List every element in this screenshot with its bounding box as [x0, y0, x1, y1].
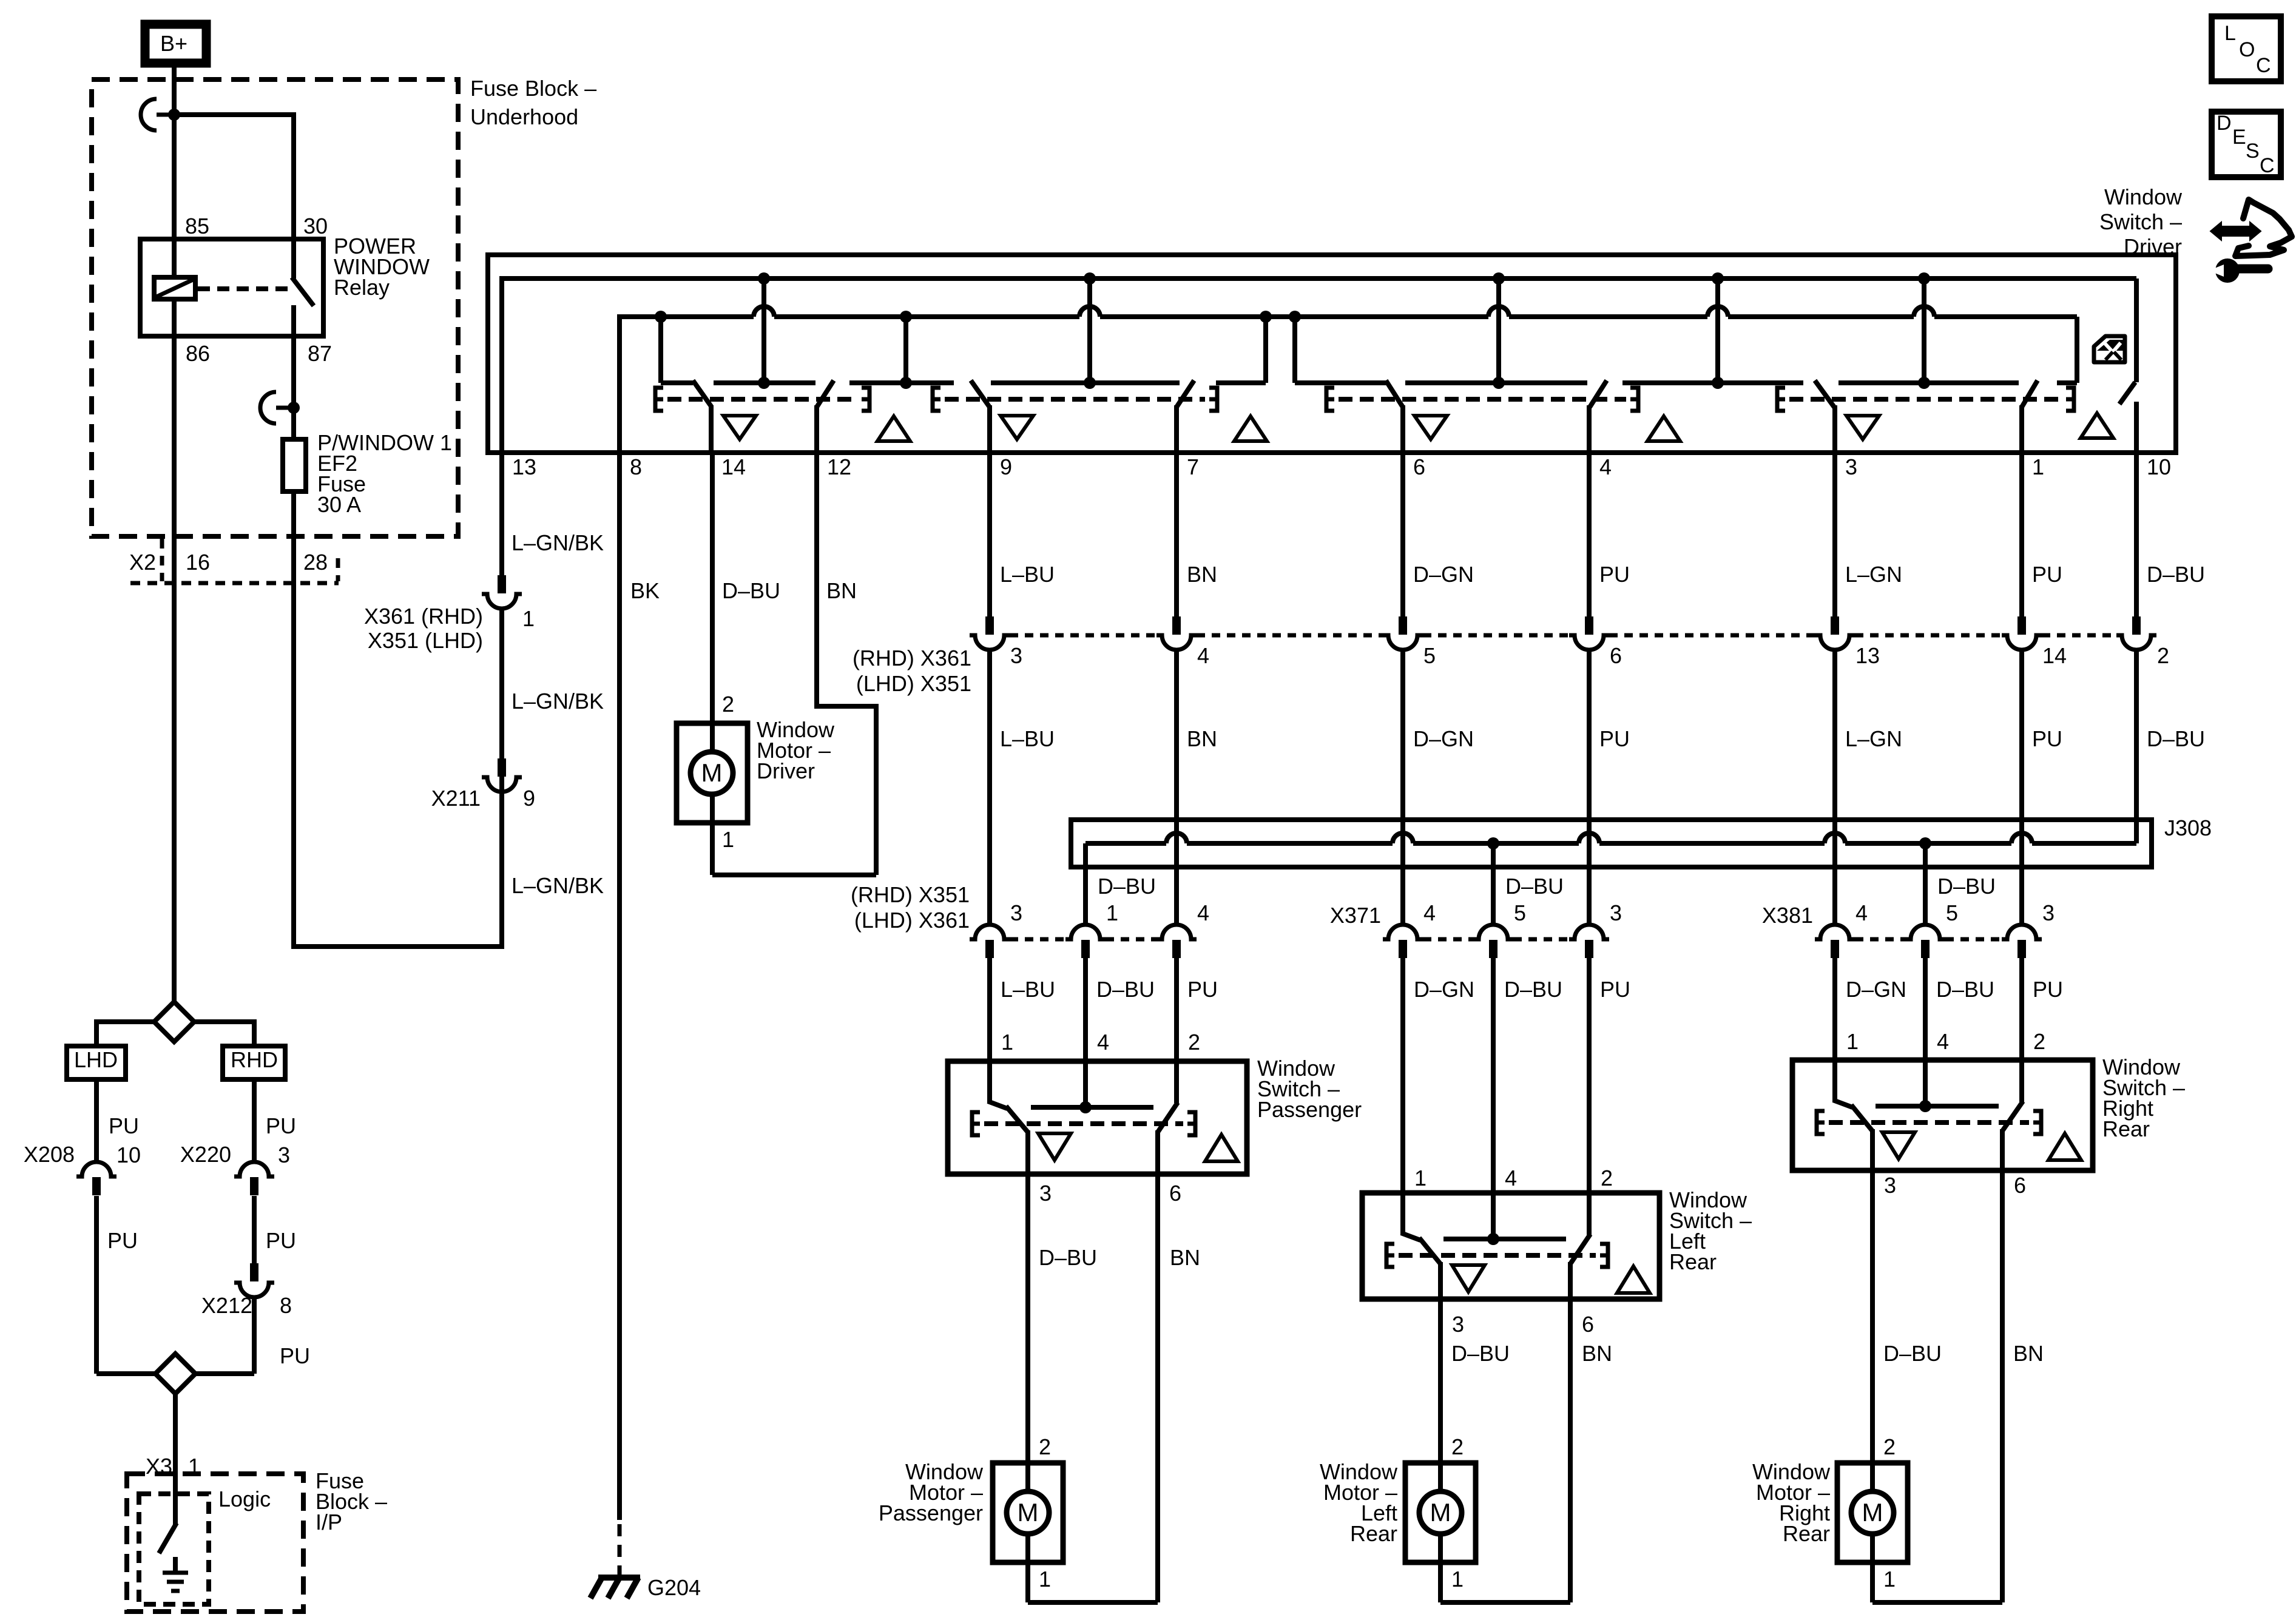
- fuse P/WINDOW 1 EF2 30A: [283, 439, 306, 491]
- svg-text:2: 2: [1883, 1434, 1896, 1459]
- wire pin 3: [1832, 405, 1837, 453]
- svg-text:PU: PU: [109, 1113, 139, 1138]
- wire fuse down through X2-28: [291, 491, 296, 949]
- svg-text:Fuse Block –: Fuse Block –: [470, 76, 596, 101]
- svg-text:2: 2: [1039, 1434, 1051, 1459]
- svg-text:3: 3: [1039, 1181, 1052, 1206]
- wires row1 to J308: [1174, 650, 1179, 822]
- connector X381 terminal x=3024: [1815, 925, 1855, 939]
- svg-text:X211: X211: [431, 786, 481, 811]
- connector X371 terminal x=2619: [1569, 925, 1609, 939]
- svg-text:10: 10: [116, 1143, 141, 1167]
- svg-text:D–BU: D–BU: [1937, 874, 1996, 899]
- svg-text:2: 2: [2033, 1029, 2045, 1054]
- node bar junction x=1259: [758, 377, 770, 389]
- svg-text:Relay: Relay: [334, 275, 390, 300]
- svg-text:1: 1: [1001, 1030, 1013, 1055]
- wire motor pin1 to BN loop: [710, 823, 715, 875]
- svg-text:M: M: [701, 758, 723, 787]
- connector X211 pin 9: [498, 758, 506, 777]
- wire X212 down: [252, 1296, 257, 1374]
- svg-text:5: 5: [1514, 900, 1526, 925]
- wire 8 BK to ground: [617, 453, 622, 1520]
- svg-text:3: 3: [1452, 1312, 1464, 1337]
- svg-text:(RHD) X351: (RHD) X351: [851, 882, 970, 907]
- svg-text:2: 2: [1451, 1434, 1464, 1459]
- motor M driver: [690, 752, 733, 794]
- svg-text:4: 4: [1423, 900, 1436, 925]
- svg-text:BN: BN: [1170, 1245, 1200, 1270]
- DESC box: [2212, 112, 2281, 177]
- wire pin column x=2312 to row-1 connector: [1400, 453, 1405, 616]
- svg-text:D–BU: D–BU: [1096, 977, 1155, 1002]
- switch linkage group 2: [933, 388, 940, 411]
- service icon: double arrow: [2210, 222, 2261, 240]
- battery feed B+: [145, 24, 206, 63]
- switch contact bar 1089-1142: [661, 380, 693, 385]
- bus2 up-feed right of group2: [1260, 311, 1272, 323]
- svg-text:D–BU: D–BU: [1504, 977, 1562, 1002]
- wire D-BU right rear motor: [1870, 1170, 1875, 1463]
- svg-text:L–GN/BK: L–GN/BK: [512, 689, 604, 714]
- svg-text:PU: PU: [2032, 562, 2062, 587]
- node bus2 feed x=1493: [900, 311, 912, 323]
- LOC box: [2212, 16, 2281, 81]
- svg-text:13: 13: [1855, 643, 1880, 668]
- svg-text:5: 5: [1946, 900, 1958, 925]
- relay linkage dashes: [198, 286, 290, 291]
- connector X361/X351 terminal x=2619: [1585, 616, 1593, 635]
- svg-text:(LHD) X351: (LHD) X351: [856, 671, 971, 696]
- junction block J308: [1071, 820, 2152, 867]
- wire BN right rear: [2000, 1170, 2005, 1602]
- svg-text:1: 1: [1883, 1567, 1896, 1592]
- switch contact bar 2004-2086: [1216, 380, 1266, 385]
- svg-text:Window: Window: [2104, 184, 2183, 209]
- connector row 1 dashes: [1010, 633, 1156, 638]
- wire pin 9: [987, 405, 992, 453]
- node bar junction x=3171: [1918, 377, 1930, 389]
- svg-text:4: 4: [1197, 643, 1209, 668]
- connector X361/X351 terminal x=1939: [1172, 616, 1181, 635]
- wire to LHD: [96, 1019, 154, 1024]
- node bus1 feed x=1259: [758, 272, 770, 285]
- svg-text:BN: BN: [826, 578, 857, 603]
- wire B+ to relay 85: [172, 63, 177, 239]
- fusible curl at fuse junction: [260, 392, 276, 424]
- svg-text:X381: X381: [1762, 903, 1813, 928]
- wire pin column x=3332 to row-1 connector: [2019, 453, 2024, 616]
- svg-text:B+: B+: [160, 31, 187, 56]
- fuse block underhood dashed box: [92, 79, 458, 536]
- wire pin 6: [1400, 405, 1405, 453]
- pin10 switch: feed from bus1 corner: [2134, 279, 2139, 382]
- svg-text:Rear: Rear: [2102, 1116, 2150, 1141]
- svg-text:Rear: Rear: [1669, 1249, 1717, 1274]
- wire pin column x=1631 to row-1 connector: [987, 453, 992, 616]
- service icon: wrench: [2215, 258, 2240, 283]
- svg-text:1: 1: [1106, 900, 1118, 925]
- connector X371 terminal x=2461: [1473, 925, 1513, 939]
- svg-text:X371: X371: [1330, 903, 1381, 928]
- wire 13 L-GN/BK: [499, 453, 504, 575]
- svg-text:Driver: Driver: [757, 758, 815, 783]
- node B+ junction: [168, 109, 180, 121]
- svg-text:D–BU: D–BU: [1505, 874, 1564, 899]
- window switch driver box: [488, 255, 2176, 453]
- svg-text:12: 12: [827, 454, 851, 479]
- svg-text:Rear: Rear: [1350, 1521, 1397, 1546]
- connector X361/X351 terminal x=1631: [985, 616, 994, 635]
- svg-text:D–BU: D–BU: [1451, 1341, 1510, 1366]
- window up arrow x=2742: [1647, 416, 1680, 441]
- wire pin column x=2619 to row-1 connector: [1587, 453, 1592, 616]
- switch arm pin 1: [2022, 380, 2038, 407]
- svg-text:Rear: Rear: [1783, 1521, 1830, 1546]
- svg-text:D–BU: D–BU: [1883, 1341, 1942, 1366]
- node bus1 feed x=2831: [1712, 272, 1724, 285]
- svg-text:PU: PU: [266, 1113, 296, 1138]
- window switch Passenger box: [948, 1061, 1247, 1174]
- svg-text:PU: PU: [266, 1228, 296, 1253]
- svg-text:30 A: 30 A: [317, 492, 361, 517]
- wire diamond to X3: [173, 1394, 178, 1480]
- svg-text:4: 4: [1599, 454, 1612, 479]
- svg-text:PU: PU: [107, 1228, 138, 1253]
- switch arm pin 3: [1815, 380, 1834, 407]
- svg-text:Switch –: Switch –: [2099, 209, 2182, 234]
- wire pin 12: [814, 405, 819, 453]
- svg-text:D–BU: D–BU: [2147, 726, 2205, 751]
- svg-text:D–GN: D–GN: [1413, 562, 1474, 587]
- svg-text:4: 4: [1937, 1029, 1949, 1054]
- svg-text:X208: X208: [24, 1142, 75, 1167]
- window icon in driver switch: [2094, 336, 2125, 362]
- svg-text:(LHD) X361: (LHD) X361: [854, 908, 970, 933]
- ground symbol in logic box: [173, 1557, 178, 1573]
- wire pin 7: [1174, 405, 1179, 453]
- svg-text:C: C: [2256, 54, 2271, 77]
- svg-text:8: 8: [280, 1293, 292, 1318]
- svg-text:30: 30: [303, 214, 328, 238]
- switch linkage group 3: [1326, 388, 1334, 411]
- RHD box: [223, 1046, 285, 1079]
- D-BU drops from J308: [1083, 867, 1088, 925]
- wire 12 BN: [814, 453, 819, 709]
- svg-text:E: E: [2232, 126, 2246, 149]
- node bus1 feed x=1796: [1084, 272, 1096, 285]
- svg-text:I/P: I/P: [316, 1510, 342, 1534]
- svg-text:6: 6: [1610, 643, 1622, 668]
- svg-text:Passenger: Passenger: [1257, 1097, 1362, 1122]
- switch arm pin 6: [1386, 380, 1403, 407]
- wire relay 87 to fuse: [291, 336, 296, 439]
- switch contact bar 3390-3423: [2057, 380, 2077, 385]
- connector X361/X351 terminal x=3332: [2017, 616, 2026, 635]
- svg-text:5: 5: [1423, 643, 1436, 668]
- wire RHD to X220: [252, 1079, 257, 1161]
- bus2 right end feed: [2075, 317, 2079, 383]
- POWER WINDOW relay box: [140, 239, 323, 336]
- svg-text:86: 86: [186, 341, 210, 366]
- svg-text:X351 (LHD): X351 (LHD): [368, 628, 483, 653]
- connector X361/X351 terminal x=3521: [2132, 616, 2141, 635]
- svg-text:L–GN: L–GN: [1845, 562, 1902, 587]
- svg-text:2: 2: [1188, 1030, 1200, 1055]
- svg-text:D: D: [2217, 112, 2232, 135]
- svg-text:28: 28: [303, 550, 328, 575]
- svg-text:D–GN: D–GN: [1414, 977, 1474, 1002]
- window up arrow x=3456: [2081, 413, 2113, 438]
- window up arrow x=1473: [877, 416, 910, 441]
- node J308 drop 2: [1919, 837, 1931, 849]
- fuse block I/P dashed box: [127, 1474, 303, 1612]
- svg-text:85: 85: [185, 214, 209, 238]
- connector X2 dashed pocket: [160, 539, 164, 581]
- svg-text:O: O: [2239, 38, 2255, 61]
- svg-text:PU: PU: [1600, 977, 1630, 1002]
- switch contact bar 2316-2616: [1405, 380, 1587, 385]
- switch arm pin 12: [817, 380, 834, 407]
- switch contact bar 2134-2284: [1295, 380, 1386, 385]
- node bus2 feed x=1089: [655, 311, 667, 323]
- window switch Left Rear box: [1362, 1193, 1660, 1299]
- svg-text:(RHD) X361: (RHD) X361: [853, 646, 971, 670]
- ground G204: [590, 1578, 640, 1598]
- svg-text:LHD: LHD: [74, 1047, 118, 1072]
- logic dashed box: [139, 1494, 209, 1604]
- svg-text:2: 2: [1601, 1166, 1613, 1190]
- svg-text:G204: G204: [647, 1575, 701, 1600]
- svg-text:C: C: [2260, 154, 2275, 177]
- wire junction to relay 30: [174, 112, 294, 117]
- svg-text:6: 6: [1169, 1181, 1181, 1206]
- switch arm pin 14: [693, 380, 712, 407]
- switch contact bar 1633-1944: [991, 380, 1180, 385]
- node bar junction x=2470: [1493, 377, 1505, 389]
- connector X208 pin 10: [76, 1162, 116, 1176]
- service icon: hand outline: [2235, 200, 2292, 256]
- svg-text:1: 1: [1414, 1166, 1427, 1190]
- svg-text:M: M: [1018, 1498, 1039, 1527]
- wire to RHD: [194, 1019, 254, 1024]
- svg-text:1: 1: [2032, 454, 2044, 479]
- wire relay 86 down: [172, 336, 177, 1002]
- svg-text:M: M: [1862, 1498, 1883, 1527]
- svg-text:D–BU: D–BU: [1936, 977, 1994, 1002]
- wire pin 1: [2019, 405, 2024, 453]
- svg-text:16: 16: [186, 550, 210, 575]
- connector X381 terminal x=3173: [1905, 925, 1945, 939]
- svg-text:S: S: [2246, 140, 2260, 163]
- logic switch arm: [159, 1523, 177, 1553]
- connector X351/X361 terminal x=1631: [970, 925, 1010, 939]
- bus 2 (lower, hops over bus1 feed verticals): [617, 314, 622, 453]
- LHD box: [67, 1046, 126, 1079]
- node J308 drop 1: [1487, 837, 1499, 849]
- window up arrow x=2061: [1234, 416, 1267, 441]
- svg-text:BN: BN: [1187, 726, 1217, 751]
- svg-text:D–GN: D–GN: [1846, 977, 1906, 1002]
- svg-text:L–BU: L–BU: [1001, 977, 1055, 1002]
- svg-text:14: 14: [2042, 643, 2067, 668]
- connector X361/X351 terminal x=2312: [1399, 616, 1407, 635]
- connector X381 terminal x=3332: [2002, 925, 2042, 939]
- wire LHD to X208: [94, 1079, 99, 1161]
- wire pin column x=3521 to row-1 connector: [2134, 453, 2139, 616]
- splice diamond to logic: [94, 1371, 99, 1374]
- svg-text:3: 3: [2042, 900, 2055, 925]
- wires row 2 to lower switches: [987, 958, 992, 1061]
- wire pin column x=1939 to row-1 connector: [1174, 453, 1179, 616]
- svg-text:BN: BN: [1582, 1341, 1612, 1366]
- svg-text:9: 9: [523, 786, 535, 811]
- wire X220 to X212: [252, 1196, 257, 1263]
- svg-text:BK: BK: [630, 578, 660, 603]
- node bar junction x=1796: [1084, 377, 1096, 389]
- svg-text:3: 3: [1884, 1173, 1896, 1198]
- window motor Passenger box: [993, 1463, 1063, 1562]
- wire pin 14: [709, 405, 714, 453]
- svg-text:3: 3: [1845, 454, 1857, 479]
- wire 14 D-BU to driver motor: [710, 453, 715, 723]
- switch arm pin 4: [1590, 380, 1607, 407]
- svg-text:J308: J308: [2164, 815, 2212, 840]
- fusible curl at B+ junction: [141, 99, 157, 130]
- node bus1 feed x=3171: [1918, 272, 1930, 285]
- svg-text:6: 6: [2014, 1173, 2026, 1198]
- svg-text:L–GN: L–GN: [1845, 726, 1902, 751]
- other wires J308 to row 2: [1174, 867, 1179, 925]
- svg-text:3: 3: [1010, 900, 1022, 925]
- switch contact bar 3030-3327: [1838, 380, 2019, 385]
- J308 inner wire: [1086, 841, 1166, 846]
- svg-text:D–BU: D–BU: [1039, 1245, 1097, 1270]
- switch contact bar 2674-2972: [1622, 380, 1803, 385]
- svg-text:3: 3: [1010, 643, 1022, 668]
- svg-text:4: 4: [1097, 1030, 1109, 1055]
- svg-text:Passenger: Passenger: [879, 1501, 983, 1525]
- svg-text:D–BU: D–BU: [2147, 562, 2205, 587]
- svg-text:1: 1: [1039, 1567, 1051, 1592]
- svg-text:X220: X220: [180, 1142, 231, 1167]
- bus 1 (upper): [499, 276, 504, 453]
- wire BN passenger: [1155, 1174, 1160, 1602]
- svg-text:4: 4: [1197, 900, 1209, 925]
- svg-text:6: 6: [1582, 1312, 1594, 1337]
- svg-text:4: 4: [1505, 1166, 1517, 1190]
- switch linkage group 4: [1777, 388, 1785, 411]
- node bus2 feed x=2134: [1289, 311, 1301, 323]
- connector X212 pin 8: [250, 1263, 258, 1281]
- svg-text:10: 10: [2147, 454, 2171, 479]
- switch arm pin 7: [1177, 380, 1194, 407]
- splice diamond LHD/RHD: [154, 1002, 194, 1042]
- wire D-BU left rear motor: [1438, 1299, 1443, 1463]
- svg-text:3: 3: [1610, 900, 1622, 925]
- svg-text:9: 9: [1000, 454, 1012, 479]
- svg-text:L–BU: L–BU: [1000, 562, 1055, 587]
- wire pin column x=3024 to row-1 connector: [1832, 453, 1837, 616]
- switch arm pin 9: [971, 380, 990, 407]
- svg-text:Logic: Logic: [218, 1487, 271, 1511]
- node bar junction x=1493: [900, 377, 912, 389]
- node bus1 feed x=2470: [1493, 272, 1505, 285]
- svg-text:8: 8: [630, 454, 642, 479]
- svg-text:87: 87: [308, 341, 332, 366]
- svg-text:2: 2: [2157, 643, 2169, 668]
- svg-text:1: 1: [522, 606, 535, 631]
- relay coil: [154, 277, 195, 299]
- node bar junction x=2831: [1712, 377, 1724, 389]
- svg-text:PU: PU: [280, 1343, 310, 1368]
- switch linkage group 1: [655, 388, 663, 411]
- wire D-BU passenger motor: [1025, 1174, 1030, 1463]
- svg-text:1: 1: [1451, 1567, 1464, 1592]
- svg-text:1: 1: [1846, 1029, 1859, 1054]
- window motor driver box: [677, 723, 748, 823]
- svg-text:X212: X212: [201, 1293, 252, 1318]
- svg-text:PU: PU: [1187, 977, 1218, 1002]
- svg-text:BN: BN: [2013, 1341, 2044, 1366]
- switch contact bar 1400-1572: [849, 380, 954, 385]
- svg-text:PU: PU: [2033, 977, 2063, 1002]
- svg-text:RHD: RHD: [231, 1047, 278, 1072]
- svg-text:X361 (RHD): X361 (RHD): [364, 604, 483, 629]
- svg-text:BN: BN: [1187, 562, 1217, 587]
- connector X351/X361 terminal x=1789: [1065, 925, 1106, 939]
- svg-text:6: 6: [1413, 454, 1425, 479]
- svg-text:3: 3: [278, 1143, 290, 1167]
- wire BN left rear: [1568, 1299, 1573, 1602]
- svg-text:PU: PU: [1599, 726, 1630, 751]
- svg-text:1: 1: [722, 827, 734, 852]
- svg-text:Driver: Driver: [2124, 234, 2182, 259]
- node fuse junction: [288, 402, 300, 414]
- svg-text:7: 7: [1187, 454, 1199, 479]
- svg-text:D–BU: D–BU: [1098, 874, 1156, 899]
- svg-text:D–BU: D–BU: [722, 578, 780, 603]
- svg-text:Underhood: Underhood: [470, 104, 578, 129]
- window motor Rear box: [1837, 1463, 1908, 1562]
- connector X220 pin 3: [234, 1162, 274, 1176]
- svg-text:L–GN/BK: L–GN/BK: [512, 873, 604, 898]
- relay switch arm: [291, 239, 296, 279]
- svg-text:13: 13: [512, 454, 536, 479]
- svg-text:M: M: [1430, 1498, 1451, 1527]
- switch contact bar 1176-1344: [714, 380, 815, 385]
- connector X371 terminal x=2312: [1383, 925, 1423, 939]
- window down arrow x=1676: [1001, 416, 1033, 439]
- svg-text:14: 14: [721, 454, 746, 479]
- svg-text:2: 2: [722, 692, 734, 717]
- wire L-GN/BK horizontal to switch column: [294, 944, 504, 949]
- connector X351/X361 terminal x=1939: [1156, 925, 1197, 939]
- wire into logic: [173, 1474, 178, 1525]
- svg-text:L–BU: L–BU: [1000, 726, 1055, 751]
- window down arrow x=3070: [1846, 416, 1879, 439]
- connector X361/X351 pin 1: [498, 575, 506, 593]
- svg-text:X2: X2: [129, 550, 156, 575]
- svg-text:4: 4: [1855, 900, 1868, 925]
- svg-text:L–GN/BK: L–GN/BK: [512, 530, 604, 555]
- svg-text:PU: PU: [2032, 726, 2062, 751]
- connector X361/X351 terminal x=3024: [1831, 616, 1839, 635]
- svg-text:D–GN: D–GN: [1413, 726, 1474, 751]
- wire X208 down: [94, 1196, 99, 1374]
- wire pin 4: [1587, 405, 1592, 453]
- svg-text:L: L: [2224, 22, 2236, 45]
